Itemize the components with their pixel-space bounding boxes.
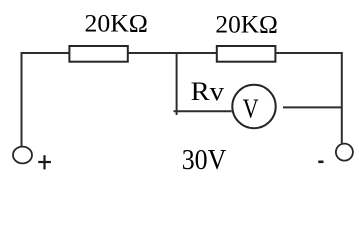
- svg-text:20KΩ: 20KΩ: [215, 10, 278, 39]
- svg-text:30V: 30V: [182, 145, 227, 176]
- svg-text:V: V: [243, 94, 259, 124]
- svg-text:Rv: Rv: [191, 77, 224, 106]
- svg-text:20KΩ: 20KΩ: [85, 8, 148, 37]
